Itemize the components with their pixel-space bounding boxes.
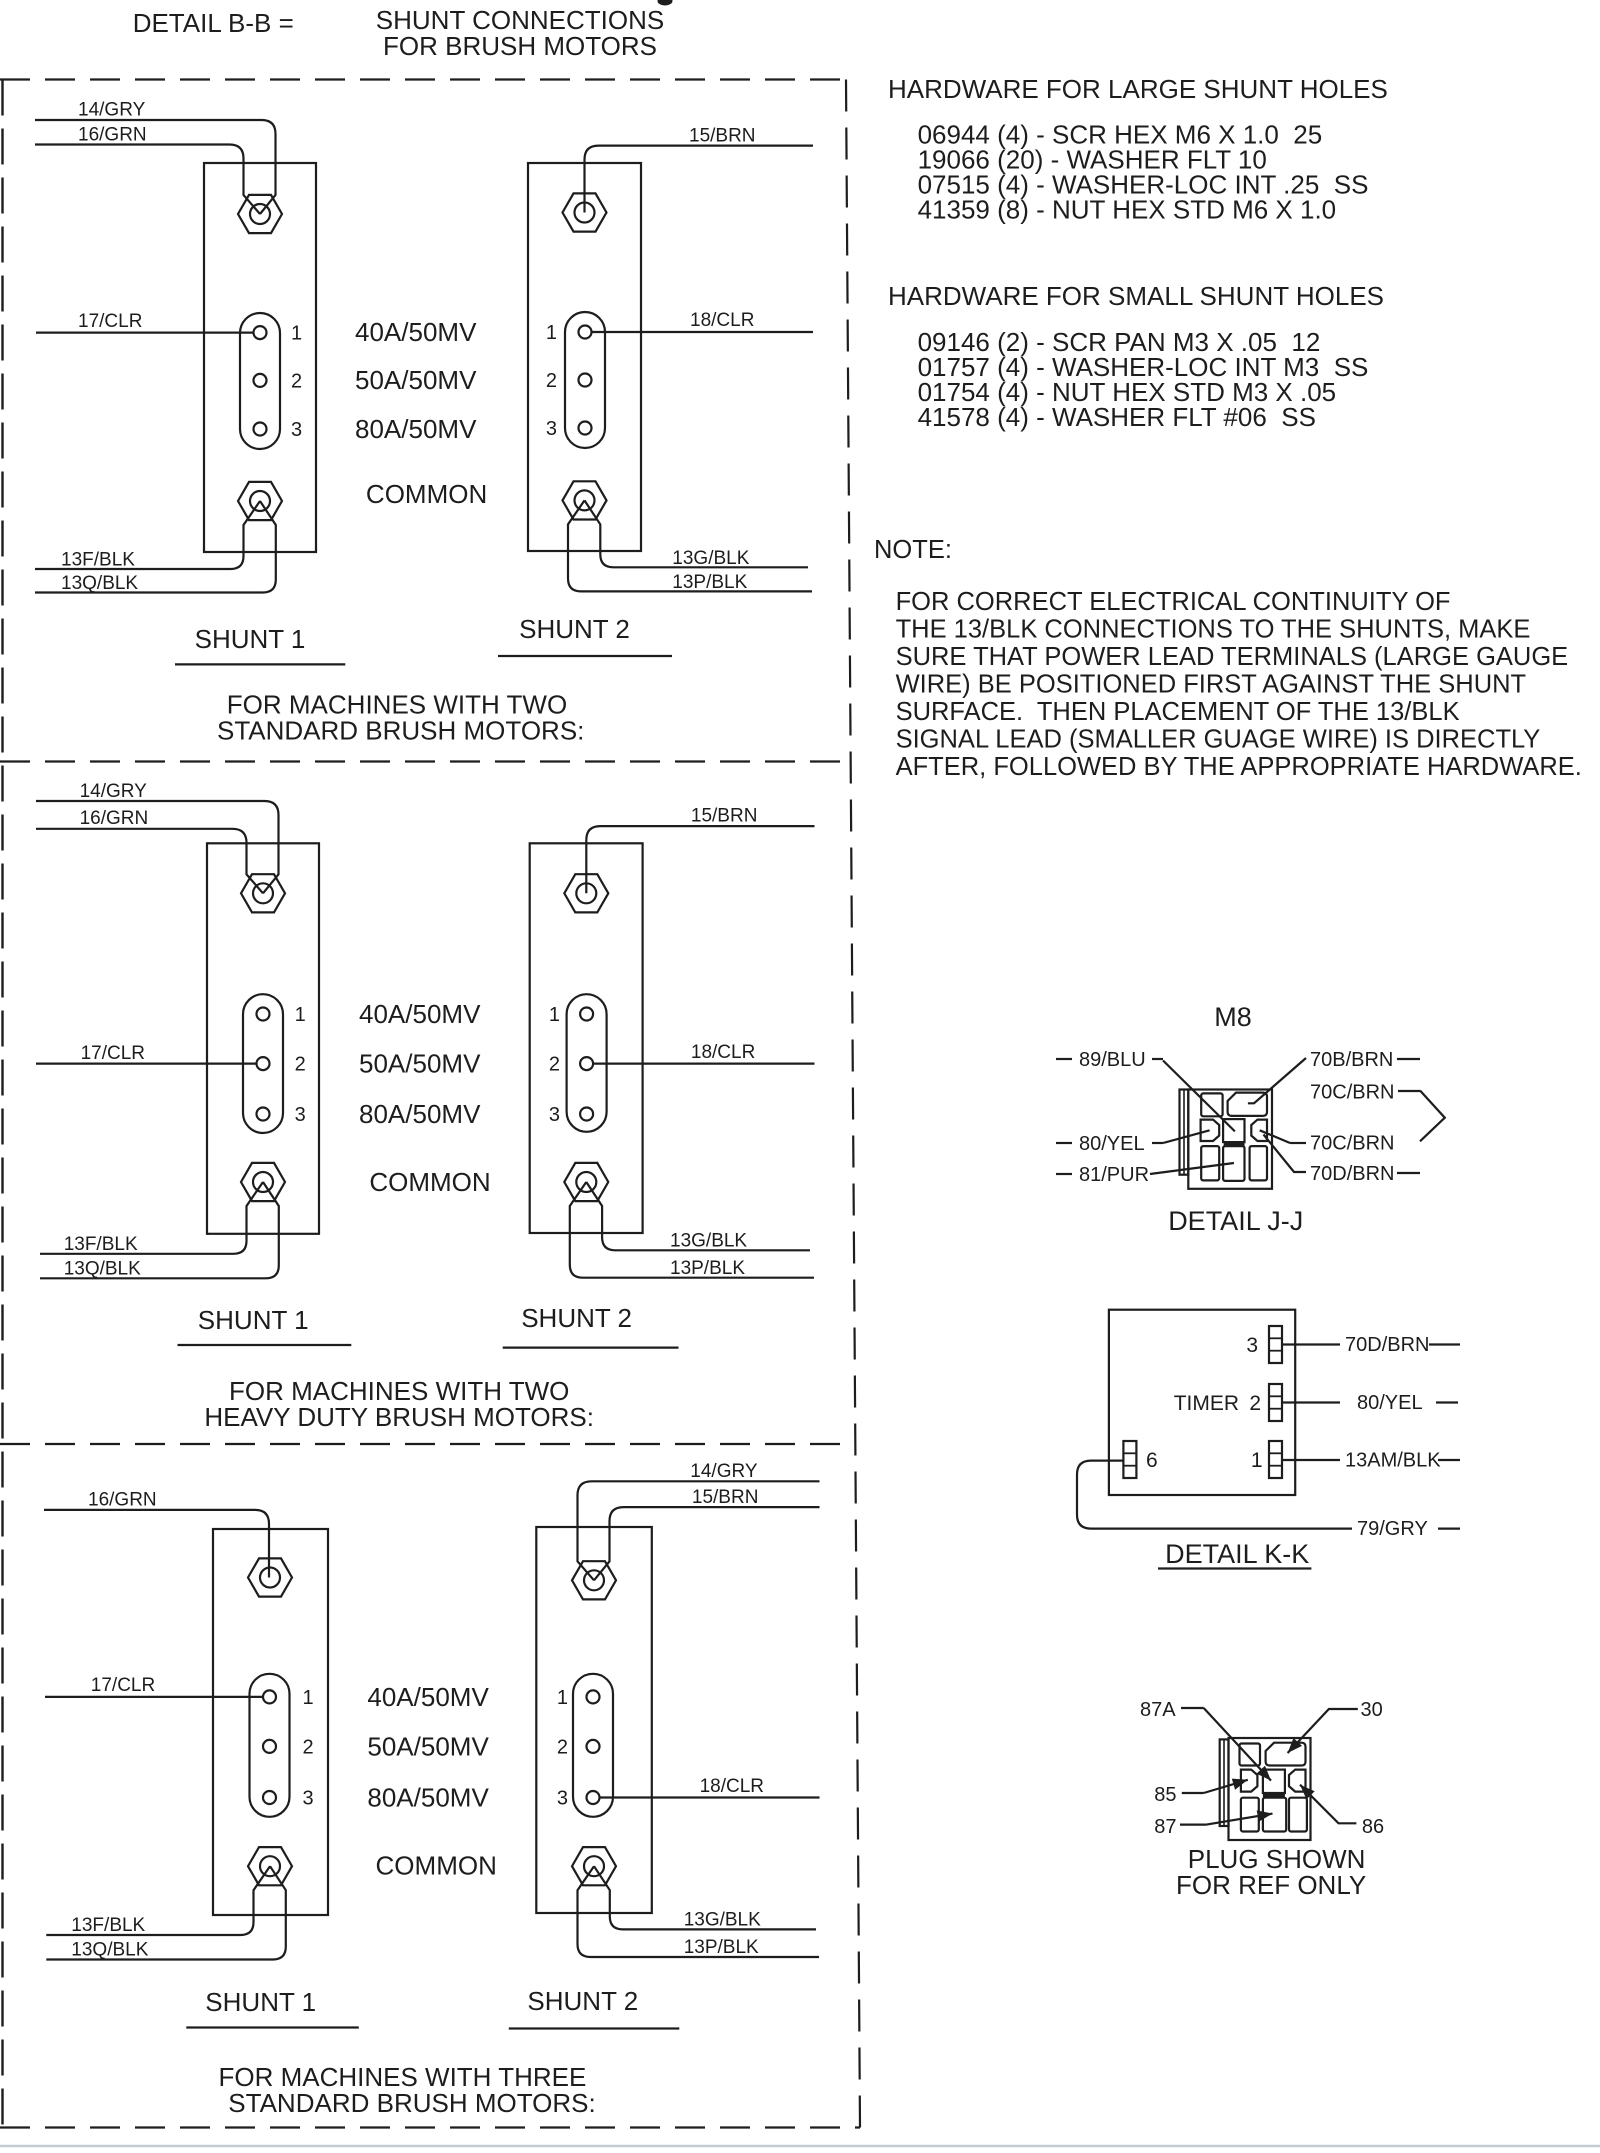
svg-text:3: 3 [303, 1788, 314, 1810]
svg-text:86: 86 [1362, 1816, 1384, 1838]
svg-text:89/BLU: 89/BLU [1079, 1049, 1146, 1071]
svg-text:15/BRN: 15/BRN [689, 126, 756, 147]
svg-text:STANDARD BRUSH MOTORS:: STANDARD BRUSH MOTORS: [228, 2088, 595, 2118]
wire 79/GRY from timer pin 6 [1077, 1461, 1352, 1529]
section-1 shunt 2 body plate [528, 163, 641, 551]
section-1 shunt 1 top hex bolt [238, 195, 282, 233]
svg-text:41359 (8) - NUT HEX STD M6 X 1: 41359 (8) - NUT HEX STD M6 X 1.0 [918, 194, 1337, 224]
svg-text:70B/BRN: 70B/BRN [1310, 1049, 1393, 1071]
label 80/YEL with leader [1056, 1142, 1072, 1144]
timer box [1109, 1310, 1295, 1495]
section-2 shunt 1 hole 2 [257, 1057, 270, 1070]
section-3 shunt 1 top bolt hole circle [260, 1568, 280, 1588]
svg-text:80A/50MV: 80A/50MV [359, 1099, 481, 1129]
svg-text:3: 3 [1246, 1334, 1258, 1357]
wire 13AM/BLK from timer pin 1 [1282, 1459, 1340, 1461]
section-3 shunt 1 hole 3 [263, 1791, 276, 1804]
svg-text:FOR BRUSH MOTORS: FOR BRUSH MOTORS [383, 31, 657, 61]
timer pin 1 [1269, 1441, 1282, 1478]
dashed separator between section 1 and 2 [0, 760, 849, 762]
M8 cavity bottom-right [1250, 1146, 1267, 1180]
svg-text:50A/50MV: 50A/50MV [359, 1049, 481, 1079]
svg-text:FOR CORRECT ELECTRICAL CONTINU: FOR CORRECT ELECTRICAL CONTINUITY OF [896, 588, 1451, 616]
svg-text:50A/50MV: 50A/50MV [367, 1731, 489, 1761]
section-1 shunt 1 top bolt hole circle [250, 204, 270, 224]
svg-text:30: 30 [1361, 1699, 1383, 1721]
timer pin 2 [1269, 1384, 1282, 1421]
svg-text:16/GRN: 16/GRN [88, 1490, 157, 1511]
label 89/BLU with leader [1056, 1058, 1072, 1060]
svg-text:15/BRN: 15/BRN [692, 1487, 759, 1508]
M8 cavity bottom-left [1201, 1146, 1219, 1180]
section-3 shunt 1 3-hole terminal oval [250, 1674, 290, 1817]
M8 key slot [1224, 1142, 1245, 1146]
svg-text:79/GRY: 79/GRY [1357, 1518, 1428, 1540]
svg-text:13Q/BLK: 13Q/BLK [64, 1259, 141, 1280]
svg-text:2: 2 [549, 1054, 560, 1076]
section-1 shunt 2 hole 2 [579, 374, 592, 387]
svg-text:SHUNT 2: SHUNT 2 [521, 1303, 632, 1333]
svg-text:2: 2 [291, 370, 302, 392]
section-2 shunt 2 3-hole terminal oval [567, 994, 607, 1132]
svg-text:70D/BRN: 70D/BRN [1345, 1334, 1429, 1356]
svg-text:13Q/BLK: 13Q/BLK [61, 573, 138, 594]
section-3 shunt 2 top hex bolt [572, 1561, 616, 1599]
plug cavity 86 (mid right) [1289, 1770, 1306, 1792]
svg-text:DETAIL B-B =: DETAIL B-B = [133, 8, 294, 38]
svg-text:80A/50MV: 80A/50MV [355, 414, 477, 444]
dashed border left [1, 80, 3, 2128]
svg-text:13F/BLK: 13F/BLK [64, 1234, 138, 1255]
connector M8 body [1188, 1090, 1272, 1189]
svg-text:3: 3 [295, 1104, 306, 1126]
svg-text:FOR REF ONLY: FOR REF ONLY [1176, 1870, 1366, 1900]
section-2 shunt 2 bottom hex bolt [564, 1163, 608, 1201]
connector M8 side tab [1180, 1090, 1189, 1175]
timer pin 6 [1123, 1441, 1136, 1478]
section-2 shunt 2 top bolt hole circle [576, 883, 596, 903]
svg-text:16/GRN: 16/GRN [80, 808, 149, 829]
svg-text:SHUNT 2: SHUNT 2 [527, 1986, 638, 2016]
svg-text:M8: M8 [1214, 1002, 1252, 1032]
dashed separator between section 2 and 3 [0, 1443, 855, 1445]
svg-text:70C/BRN: 70C/BRN [1310, 1132, 1394, 1154]
plug cavity bottom-centre [1263, 1798, 1286, 1832]
svg-text:SHUNT 2: SHUNT 2 [519, 614, 630, 644]
section-1 shunt 1 body plate [204, 163, 316, 552]
M8 cavity 80/YEL (mid left) [1201, 1120, 1220, 1141]
svg-text:1: 1 [549, 1004, 560, 1026]
svg-text:TIMER: TIMER [1174, 1392, 1239, 1415]
plug cavity top-left [1240, 1744, 1261, 1766]
label 70C/BRN lower with leader [1260, 1130, 1290, 1143]
section-2 shunt 2 hole 2 [580, 1057, 593, 1070]
svg-text:13P/BLK: 13P/BLK [672, 572, 747, 593]
M8 cavity top-left [1201, 1093, 1222, 1116]
svg-text:13AM/BLK: 13AM/BLK [1345, 1450, 1441, 1472]
dashed border right [846, 80, 860, 2128]
svg-text:3: 3 [557, 1788, 568, 1810]
M8 cavity bottom-centre [1223, 1146, 1244, 1181]
svg-text:40A/50MV: 40A/50MV [359, 999, 481, 1029]
section-3 shunt 2 top bolt hole circle [584, 1570, 604, 1590]
section-1 shunt 2 bottom hex bolt [563, 481, 607, 519]
section-3 shunt 1 bottom hex bolt [248, 1847, 292, 1885]
svg-text:2: 2 [557, 1736, 568, 1758]
svg-text:STANDARD BRUSH MOTORS:: STANDARD BRUSH MOTORS: [217, 716, 584, 746]
svg-text:AFTER, FOLLOWED BY THE APPROPR: AFTER, FOLLOWED BY THE APPROPRIATE HARDW… [896, 753, 1582, 781]
svg-text:NOTE:: NOTE: [874, 536, 952, 564]
scan artifact blob top right [658, 0, 673, 6]
M8 cavity 89/BLU (mid centre) [1223, 1119, 1244, 1142]
section-3 shunt 2 hole 3 [587, 1791, 600, 1804]
svg-text:70D/BRN: 70D/BRN [1310, 1163, 1394, 1185]
label 70D/BRN with leader [1264, 1135, 1307, 1173]
dashed border bottom [0, 2126, 860, 2128]
svg-text:13P/BLK: 13P/BLK [684, 1937, 759, 1958]
plug cavity 85 (mid left) [1241, 1770, 1258, 1792]
section-1 shunt 2 top hex bolt [563, 193, 607, 231]
svg-text:SURE THAT POWER LEAD TERMINALS: SURE THAT POWER LEAD TERMINALS (LARGE GA… [896, 643, 1569, 671]
section-3 shunt 2 hole 2 [587, 1740, 600, 1753]
section-2 shunt 2 hole 3 [580, 1108, 593, 1121]
section-3 shunt 1 top hex bolt [248, 1558, 292, 1596]
svg-text:HEAVY DUTY BRUSH MOTORS:: HEAVY DUTY BRUSH MOTORS: [204, 1402, 594, 1432]
svg-text:SURFACE. THEN PLACEMENT OF TH: SURFACE. THEN PLACEMENT OF THE 13/BLK [896, 698, 1460, 726]
svg-text:COMMON: COMMON [369, 1167, 490, 1197]
svg-text:DETAIL J-J: DETAIL J-J [1168, 1206, 1303, 1236]
plug body [1229, 1738, 1311, 1840]
section-2 shunt 2 top hex bolt [564, 874, 608, 912]
label 70B/BRN with leader [1248, 1058, 1306, 1103]
svg-text:SIGNAL LEAD (SMALLER GUAGE WIR: SIGNAL LEAD (SMALLER GUAGE WIRE) IS DIRE… [896, 725, 1541, 753]
svg-text:DETAIL K-K: DETAIL K-K [1165, 1539, 1309, 1569]
svg-text:SHUNT 1: SHUNT 1 [198, 1305, 309, 1335]
svg-text:40A/50MV: 40A/50MV [355, 317, 477, 347]
svg-text:1: 1 [291, 323, 302, 345]
wire 70D/BRN from timer pin 3 [1282, 1343, 1340, 1345]
section-1 shunt 1 hole 3 [254, 423, 267, 436]
svg-text:87A: 87A [1140, 1699, 1176, 1721]
svg-text:17/CLR: 17/CLR [91, 1675, 155, 1696]
plug cavity bottom-left [1241, 1798, 1259, 1832]
section-1 shunt 2 hole 1 [579, 326, 592, 339]
section-1 shunt 1 bottom hex bolt [238, 482, 282, 520]
section-2 shunt 1 hole 3 [257, 1108, 270, 1121]
svg-text:3: 3 [291, 419, 302, 441]
plug cavity bottom-right [1289, 1798, 1307, 1832]
svg-text:14/GRY: 14/GRY [78, 100, 146, 121]
section-2 shunt 1 top hex bolt [241, 874, 285, 912]
svg-text:15/BRN: 15/BRN [691, 806, 758, 827]
label 81/PUR with leader [1056, 1173, 1072, 1175]
svg-text:40A/50MV: 40A/50MV [367, 1682, 489, 1712]
plug cavity 30 (top right) [1266, 1743, 1306, 1766]
svg-text:80/YEL: 80/YEL [1079, 1133, 1145, 1155]
section-3 shunt 1 hole 2 [263, 1740, 276, 1753]
section-3 shunt 1 body plate [213, 1529, 328, 1915]
svg-text:13G/BLK: 13G/BLK [672, 548, 749, 569]
svg-text:85: 85 [1154, 1784, 1176, 1806]
section-2 shunt 2 body plate [530, 843, 643, 1233]
section-2 shunt 1 3-hole terminal oval [243, 994, 283, 1133]
wire 80/YEL from timer pin 2 [1282, 1401, 1340, 1403]
svg-text:3: 3 [549, 1104, 560, 1126]
section-1 shunt 2 3-hole terminal oval [565, 312, 605, 448]
svg-text:THE 13/BLK CONNECTIONS TO THE: THE 13/BLK CONNECTIONS TO THE SHUNTS, MA… [896, 615, 1531, 643]
svg-text:14/GRY: 14/GRY [80, 781, 148, 802]
timer pin 3 [1269, 1326, 1282, 1363]
dashed border top (section 1) [0, 78, 846, 80]
svg-text:16/GRN: 16/GRN [78, 125, 147, 146]
svg-text:80/YEL: 80/YEL [1357, 1392, 1423, 1414]
section-3 shunt 2 3-hole terminal oval [573, 1674, 613, 1817]
svg-text:50A/50MV: 50A/50MV [355, 365, 477, 395]
svg-text:2: 2 [295, 1054, 306, 1076]
svg-text:18/CLR: 18/CLR [691, 1042, 755, 1063]
svg-text:13F/BLK: 13F/BLK [61, 550, 135, 571]
svg-text:HARDWARE FOR SMALL SHUNT HOLES: HARDWARE FOR SMALL SHUNT HOLES [888, 281, 1384, 311]
svg-text:2: 2 [303, 1736, 314, 1758]
svg-text:13Q/BLK: 13Q/BLK [71, 1940, 148, 1961]
section-2 shunt 1 hole 1 [257, 1008, 270, 1021]
svg-text:SHUNT 1: SHUNT 1 [195, 624, 306, 654]
plug cavity 87A (mid centre) [1263, 1770, 1285, 1793]
M8 cavity 70B (top right) [1228, 1093, 1267, 1116]
M8 cavity 70C (mid right) [1251, 1120, 1267, 1141]
svg-text:13G/BLK: 13G/BLK [684, 1910, 761, 1931]
svg-text:17/CLR: 17/CLR [78, 311, 142, 332]
svg-text:41578 (4) - WASHER FLT #06 SS: 41578 (4) - WASHER FLT #06 SS [918, 402, 1316, 432]
svg-text:WIRE) BE POSITIONED FIRST AGAI: WIRE) BE POSITIONED FIRST AGAINST THE SH… [896, 670, 1527, 698]
svg-text:SHUNT 1: SHUNT 1 [205, 1987, 316, 2017]
section-1 shunt 2 hole 3 [579, 422, 592, 435]
svg-text:17/CLR: 17/CLR [81, 1043, 145, 1064]
svg-text:87: 87 [1154, 1816, 1176, 1838]
plug key slot [1263, 1793, 1285, 1797]
svg-text:COMMON: COMMON [366, 479, 487, 509]
svg-text:1: 1 [557, 1687, 568, 1709]
section-3 shunt 2 body plate [536, 1527, 652, 1913]
section-2 shunt 2 hole 1 [580, 1008, 593, 1021]
section-1 shunt 1 hole 1 [254, 326, 267, 339]
svg-text:13P/BLK: 13P/BLK [670, 1258, 745, 1279]
svg-text:1: 1 [1251, 1449, 1263, 1472]
svg-text:1: 1 [546, 322, 557, 344]
section-3 shunt 2 bottom hex bolt [572, 1847, 616, 1885]
svg-text:2: 2 [546, 370, 557, 392]
svg-text:3: 3 [546, 418, 557, 440]
svg-text:13G/BLK: 13G/BLK [670, 1231, 747, 1252]
svg-text:1: 1 [303, 1687, 314, 1709]
section-2 shunt 1 bottom hex bolt [241, 1163, 285, 1201]
svg-text:70C/BRN: 70C/BRN [1310, 1081, 1394, 1103]
svg-text:81/PUR: 81/PUR [1079, 1164, 1149, 1186]
svg-text:COMMON: COMMON [376, 1851, 497, 1881]
section-1 shunt 1 3-hole terminal oval [240, 313, 280, 449]
section-2 shunt 1 top bolt hole circle [253, 883, 273, 903]
section-1 shunt 1 hole 2 [254, 374, 267, 387]
svg-text:18/CLR: 18/CLR [690, 310, 754, 331]
svg-text:HARDWARE FOR LARGE SHUNT HOLES: HARDWARE FOR LARGE SHUNT HOLES [888, 74, 1388, 104]
svg-text:80A/50MV: 80A/50MV [367, 1783, 489, 1813]
svg-text:6: 6 [1146, 1449, 1158, 1472]
svg-text:2: 2 [1249, 1392, 1261, 1415]
svg-text:1: 1 [295, 1004, 306, 1026]
section-1 shunt 2 top bolt hole circle [575, 203, 595, 223]
section-3 shunt 1 hole 1 [263, 1690, 276, 1703]
svg-text:18/CLR: 18/CLR [700, 1776, 764, 1797]
plug side tab [1220, 1739, 1229, 1826]
section-3 shunt 2 hole 1 [587, 1690, 600, 1703]
faint page-bottom scan line [0, 2145, 1600, 2148]
svg-text:13F/BLK: 13F/BLK [71, 1915, 145, 1936]
section-2 shunt 1 body plate [207, 843, 319, 1234]
svg-text:14/GRY: 14/GRY [690, 1461, 758, 1482]
